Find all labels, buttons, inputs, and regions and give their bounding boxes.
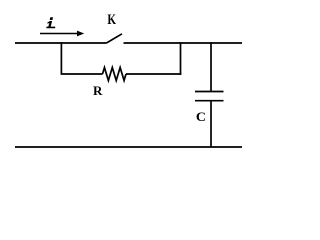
wire: resistor row right lead <box>126 73 181 75</box>
wire: top rail right segment after switch <box>124 42 243 44</box>
label i (current) stem and base serif <box>46 21 55 28</box>
svg-text:K: K <box>107 12 116 28</box>
switch K blade (open) <box>107 34 123 43</box>
wire: bottom rail <box>15 146 242 148</box>
resistor R zigzag <box>103 68 127 81</box>
wire: top rail left segment <box>15 42 107 44</box>
wire: capacitor branch vertical upper <box>210 42 212 91</box>
current arrow i head <box>77 31 84 37</box>
svg-text:C: C <box>196 110 206 124</box>
capacitor C bottom plate <box>195 100 224 102</box>
svg-text:R: R <box>93 83 103 98</box>
current arrow i shaft <box>40 33 78 35</box>
label i (current) dot <box>50 17 53 20</box>
wire: right branch vertical up to top rail <box>180 42 182 75</box>
wire: capacitor branch vertical lower <box>210 101 212 147</box>
capacitor C top plate <box>195 91 224 93</box>
wire: resistor row left lead <box>61 73 103 75</box>
wire: left branch vertical from node A down to resistor row <box>60 42 62 74</box>
